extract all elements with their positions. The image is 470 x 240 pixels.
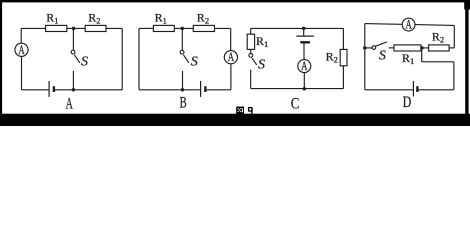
battery long plate (circuit A) [48, 81, 50, 97]
wire: B top-right segment [215, 27, 231, 29]
wire: C right edge above R2 [342, 28, 344, 49]
svg-text:A: A [18, 43, 24, 57]
resistor R1 (circuit A) [46, 25, 67, 31]
svg-text:A: A [405, 18, 411, 32]
border frame: top-right corner patch [464, 0, 470, 10]
ammeter (circuit C) [298, 60, 311, 73]
resistor R2 (circuit D) [429, 45, 450, 51]
wire: C middle branch below ammeter [303, 73, 305, 89]
battery long plate (circuit D) [412, 81, 414, 96]
resistor R1 (circuit C, vertical) [247, 34, 254, 49]
wire: C middle branch between battery and ammeter [303, 44, 305, 60]
node: junction dot A bottom [72, 88, 76, 92]
wire: D internal R2 right end to right edge [449, 47, 454, 49]
wire: B right edge above ammeter [230, 28, 232, 50]
node: junction dot C bottom [303, 87, 307, 91]
resistor R2 (circuit A) [85, 25, 106, 31]
ammeter (circuit A) [15, 43, 28, 56]
svg-text:B: B [180, 94, 187, 112]
wire: A switch branch upper [72, 28, 74, 49]
switch S lever (circuit C) [252, 58, 257, 65]
ammeter (circuit D) [402, 18, 415, 31]
resistor R1 (circuit B) [153, 25, 174, 31]
wire: C left edge below switch [250, 70, 252, 89]
svg-text:A: A [301, 60, 307, 74]
svg-text:A: A [228, 51, 234, 65]
wire: B bottom-left segment [139, 89, 200, 91]
svg-text:S: S [191, 55, 198, 70]
border frame: left bar [0, 0, 2, 126]
switch S pivot circle (circuit A) [71, 50, 75, 54]
switch S pivot circle (circuit C) [249, 54, 253, 58]
switch S lever (circuit B) [184, 55, 190, 63]
node: junction dot C top [302, 27, 306, 31]
border frame: bottom bar [0, 114, 470, 126]
switch S pivot circle (circuit B) [180, 50, 184, 54]
resistor R1 (circuit D) [394, 45, 421, 51]
wire: A right edge [121, 28, 123, 89]
wire: A bottom-left segment [22, 89, 49, 91]
wire: D bypass vertical from junction [421, 48, 423, 62]
battery long plate (circuit C) [296, 35, 314, 37]
wire: D internal between R1 and R2 [421, 47, 429, 49]
wire: D top wire right of ammeter [415, 24, 454, 27]
battery short thick plate (circuit A) [53, 86, 55, 92]
wire: C middle branch upper [303, 28, 305, 35]
wire: C bottom wire [251, 88, 344, 90]
node: junction dot B top [181, 27, 185, 31]
wire: B right edge below ammeter [230, 64, 232, 90]
svg-text:C: C [291, 95, 300, 113]
wire: D internal from left edge to switch [365, 47, 372, 49]
node: junction dot D between R1 and R2 [420, 46, 424, 50]
battery short thick plate (circuit C) [300, 41, 310, 43]
node: junction dot D left edge [363, 46, 367, 50]
wire: D left edge [364, 24, 366, 90]
svg-text:D: D [403, 93, 412, 111]
wire: B top between R1 and R2 [174, 27, 193, 29]
resistor R2 (circuit B) [193, 25, 214, 31]
wire: D bottom-right segment [418, 89, 454, 91]
wire: A left edge below ammeter [21, 56, 23, 89]
wire: C top wire [251, 27, 344, 29]
wire: C left edge between R1 and switch [250, 49, 252, 53]
ammeter (circuit B) [224, 51, 237, 64]
wire: B top-left segment [139, 27, 153, 29]
wire: B switch branch upper [181, 28, 183, 49]
wire: D top wire left of ammeter [365, 23, 402, 26]
wire: B bottom-right segment [206, 89, 231, 91]
resistor R2 (circuit C, vertical) [340, 49, 347, 65]
wire: A top between R1 and R2 [67, 27, 85, 29]
battery long plate (circuit B) [200, 81, 202, 97]
switch S lever (circuit D) [376, 42, 387, 46]
wire: D bottom-left segment [365, 89, 413, 91]
svg-text:A: A [66, 94, 74, 112]
caption digit 9 [249, 108, 252, 115]
svg-text:S: S [258, 58, 265, 73]
wire: C left edge above R1 [250, 28, 252, 34]
node: junction dot B bottom [181, 88, 185, 92]
wire: D right edge lower [453, 62, 455, 90]
wire: C right edge below R2 [342, 66, 344, 89]
svg-text:S: S [379, 48, 386, 63]
wire: D right edge upper (top to R2 right end) [453, 25, 455, 48]
node: junction dot A top [72, 27, 76, 31]
wire: A top-left segment [21, 27, 45, 29]
caption glyph box (图) [236, 107, 244, 115]
switch S pivot circle (circuit D) [372, 46, 376, 50]
wire: A bottom-right segment [55, 89, 122, 91]
wire: B switch branch lower [182, 71, 184, 90]
wire: B left edge [138, 28, 140, 89]
wire: A top-right segment [106, 27, 122, 29]
battery short thick plate (circuit D) [416, 86, 418, 92]
svg-text:S: S [81, 55, 88, 70]
wire: A left edge above ammeter [20, 28, 22, 43]
border frame: top bar [0, 0, 470, 2]
wire: D internal between switch and R1 [389, 47, 394, 49]
switch S lever (circuit A) [74, 55, 79, 63]
battery short thick plate (circuit B) [204, 86, 206, 92]
wire: A switch branch lower [72, 71, 74, 90]
border frame: right bar [465, 0, 468, 126]
wire: D bypass horizontal [422, 61, 454, 63]
